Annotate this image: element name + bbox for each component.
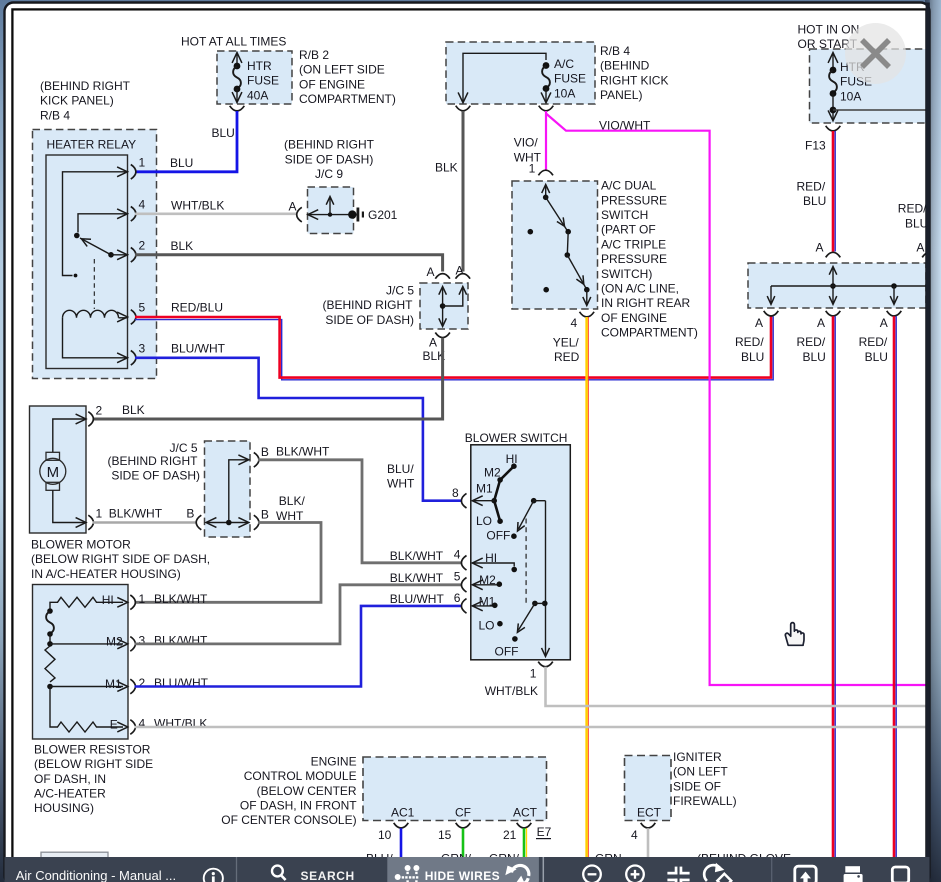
svg-text:WHT/BLK: WHT/BLK [485,684,538,698]
wire BLK A/C fuse box to J/C 5 pin A [462,111,465,272]
blower switch pin 5 [461,578,466,593]
resistor pin 2 [130,679,135,694]
svg-text:BLU/WHT: BLU/WHT [390,592,445,606]
J/C 5 right pin B bottom [254,515,259,530]
blower switch pin 4 [461,556,466,571]
svg-text:OF CENTER CONSOLE): OF CENTER CONSOLE) [221,813,356,827]
blower resistor box [33,585,129,740]
wire BLK/WHT motor pin1 to J/C 5 left [93,521,197,524]
J/C 5 left pin B [196,515,201,530]
junction connector J/C 9 [308,187,354,234]
svg-text:BLOWER RESISTOR: BLOWER RESISTOR [34,742,151,756]
svg-text:A: A [880,316,888,330]
junction box bottom pins A [764,311,779,316]
svg-text:(BEHIND RIGHT: (BEHIND RIGHT [323,298,414,312]
resistor M2 tap [50,643,123,645]
resistor vertical element [45,646,55,682]
svg-text:WHT/BLK: WHT/BLK [154,717,207,731]
svg-text:IN A/C-HEATER HOUSING): IN A/C-HEATER HOUSING) [31,567,181,581]
svg-text:2: 2 [139,239,146,253]
heater relay pin 1 [131,165,136,180]
pressure switch contacts [545,186,547,197]
wire RED/BLU junction box right to bottom [895,316,897,857]
svg-text:RED/: RED/ [797,335,826,349]
R/B 4 internal feed [463,53,546,101]
fuse box R/B 4 [446,42,595,104]
ECM pin 10 (AC1) [394,823,409,828]
heater relay outer box [33,130,157,379]
svg-text:1: 1 [529,161,536,175]
svg-text:A/C: A/C [554,57,574,71]
svg-text:(ON A/C LINE,: (ON A/C LINE, [601,282,679,296]
wire YEL/RED pressure switch to bottom [587,317,589,857]
heater relay pin 4 [131,207,136,222]
svg-text:4: 4 [571,316,578,330]
wire GRN/YEL ECM ACT [526,828,528,857]
svg-text:2: 2 [139,676,146,690]
motor M symbol [53,419,86,452]
svg-text:BLU: BLU [905,216,928,230]
fuse box top right [810,49,930,123]
svg-text:6: 6 [454,591,461,605]
J/C 5 internal bus [206,522,249,524]
fuse HTR FUSE 40A [236,54,238,66]
wire VIO/WHT A/C fuse to pressure switch pin 1 [545,111,547,170]
partially hidden tab box bottom left [41,852,108,860]
svg-text:CF: CF [455,806,471,820]
svg-text:CONTROL MODULE: CONTROL MODULE [244,769,357,783]
blower motor pin 2 [88,412,93,427]
svg-text:10A: 10A [840,89,861,103]
wire RED/BLU relay pin 5 to junction box pin A [135,316,773,379]
blower switch pin 6 [461,599,466,614]
svg-text:(BELOW RIGHT SIDE: (BELOW RIGHT SIDE [34,757,153,771]
svg-text:8: 8 [452,486,459,500]
svg-text:RED/: RED/ [859,335,888,349]
svg-text:HEATER RELAY: HEATER RELAY [47,138,137,152]
svg-text:WHT: WHT [387,477,415,491]
svg-text:5: 5 [454,570,461,584]
wire RED/BLU junction box middle to bottom [834,316,836,857]
svg-text:AC1: AC1 [391,806,415,820]
svg-text:E7: E7 [537,825,552,839]
svg-text:(BELOW RIGHT SIDE OF DASH,: (BELOW RIGHT SIDE OF DASH, [31,552,210,566]
svg-text:SWITCH): SWITCH) [601,267,652,281]
svg-text:BLU/WHT: BLU/WHT [171,342,226,356]
heater relay inner case [46,155,128,369]
heater relay actuation link (dashed) [93,259,95,309]
svg-text:A: A [916,240,924,254]
blower switch upper wiper pivot [531,498,537,504]
svg-text:B: B [261,507,269,521]
svg-text:40A: 40A [247,88,268,102]
rotate icon [512,865,529,875]
svg-text:1: 1 [139,592,146,606]
wire BLU/WHT relay pin 3 to blower switch pin 8 [135,358,462,501]
svg-text:VIO/WHT: VIO/WHT [599,118,651,132]
svg-text:A: A [817,316,825,330]
svg-text:5: 5 [139,301,146,315]
resistor M1 tap [50,686,123,688]
svg-text:J/C 9: J/C 9 [315,167,343,181]
svg-text:IN RIGHT REAR: IN RIGHT REAR [601,296,690,310]
pin under HTR fuse [230,106,245,111]
svg-text:SEARCH: SEARCH [301,869,355,882]
J/C 5 internal links [442,288,444,325]
search icon [272,866,283,877]
svg-text:RIGHT KICK: RIGHT KICK [600,73,668,87]
junction connector J/C 5 (left) [205,441,251,537]
fuse box R/B 2 [217,51,292,104]
wire GRN ECM CF [462,828,465,857]
svg-text:BLU: BLU [741,350,764,364]
svg-text:FIREWALL): FIREWALL) [673,794,737,808]
ground G201 [348,210,356,218]
svg-text:J/C 5: J/C 5 [169,441,197,455]
svg-text:SIDE OF: SIDE OF [673,779,721,793]
svg-text:1: 1 [530,666,537,680]
svg-text:4: 4 [454,548,461,562]
svg-text:LO: LO [479,619,495,633]
zoom in icon [626,866,644,882]
svg-text:HOUSING): HOUSING) [34,801,94,815]
svg-text:BLK/WHT: BLK/WHT [154,592,208,606]
resistor element E [50,687,58,728]
svg-text:10A: 10A [554,86,575,100]
svg-text:VIO/: VIO/ [514,136,539,150]
svg-text:2: 2 [96,404,103,418]
blower switch lower wiper pivot [532,601,538,607]
svg-text:A: A [816,240,824,254]
J/C 9 internal bus [308,214,352,216]
wire WHT/BLK relay pin 4 to J/C 9 [135,213,297,216]
print icon [845,866,860,872]
svg-text:SIDE OF DASH): SIDE OF DASH) [285,152,374,166]
blower motor pin 1 [88,515,93,530]
svg-text:(PART OF: (PART OF [601,223,656,237]
svg-text:A: A [429,335,437,349]
junction box (right, dashed) [748,263,926,308]
svg-text:BLOWER MOTOR: BLOWER MOTOR [31,538,131,552]
svg-text:4: 4 [631,828,638,842]
svg-text:IGNITER: IGNITER [673,750,722,764]
svg-text:PRESSURE: PRESSURE [601,252,667,266]
svg-text:HTR: HTR [247,59,272,73]
svg-text:ENGINE: ENGINE [311,754,357,768]
svg-text:A: A [755,316,763,330]
pin F13 [826,126,841,131]
svg-text:OFF: OFF [486,528,510,542]
info icon [204,869,223,882]
svg-text:BLU/: BLU/ [387,462,414,476]
blower switch box [471,445,571,660]
svg-text:BLK: BLK [171,239,194,253]
heater relay coil [63,310,119,318]
svg-text:M2: M2 [106,634,123,648]
svg-text:Air Conditioning - Manual ...: Air Conditioning - Manual ... [16,868,176,882]
blower motor box [30,406,87,533]
wire BLK J/C 5 to blower motor pin 2 [93,338,443,419]
svg-text:HI: HI [102,593,114,607]
svg-text:SWITCH: SWITCH [601,208,648,222]
svg-text:A/C TRIPLE: A/C TRIPLE [601,237,666,251]
svg-text:15: 15 [438,828,452,842]
svg-text:HIDE WIRES: HIDE WIRES [425,869,500,882]
svg-text:BLK/WHT: BLK/WHT [390,549,444,563]
svg-text:M1: M1 [105,677,122,691]
resistor pin 4 [130,720,135,735]
wire WHT/BLK blower switch pin 1 to right edge [546,667,926,706]
svg-text:(ON LEFT: (ON LEFT [673,765,728,779]
wire BLU/WHT resistor M1 to blower switch pin 6 [135,606,462,687]
svg-text:M: M [47,464,60,481]
svg-text:BLU: BLU [803,350,826,364]
svg-text:BLK/WHT: BLK/WHT [109,506,163,520]
fuse HTR FUSE 10A (F13) [832,54,834,70]
igniter pin 4 [641,823,656,828]
svg-text:4: 4 [139,717,146,731]
close button [845,23,906,84]
svg-text:KICK PANEL): KICK PANEL) [40,94,114,108]
svg-text:F13: F13 [805,138,826,152]
svg-text:HOT IN ON: HOT IN ON [798,22,860,36]
heater relay contact from pin 4 [78,214,128,233]
wire BLU fuse to heater relay pin 1 [136,111,237,172]
svg-text:OF DASH, IN FRONT: OF DASH, IN FRONT [240,799,357,813]
wire RED/BLU F13 to junction box [834,131,836,252]
svg-text:(BEHIND RIGHT: (BEHIND RIGHT [284,138,375,152]
svg-text:RED: RED [554,350,580,364]
svg-text:4: 4 [139,198,146,212]
svg-text:3: 3 [139,342,146,356]
wire WHT/BLK resistor E to right edge [135,726,926,729]
svg-text:J/C 5: J/C 5 [386,284,414,298]
svg-text:10: 10 [378,828,392,842]
svg-text:FUSE: FUSE [247,74,279,88]
svg-text:BLK/WHT: BLK/WHT [390,571,444,585]
J/C 5 right pin B top [254,453,259,468]
svg-text:LO: LO [476,514,492,528]
svg-text:1: 1 [139,156,146,170]
svg-text:RED/: RED/ [735,335,764,349]
svg-text:OF DASH, IN: OF DASH, IN [34,772,106,786]
heater relay contact from pin 1 [63,172,128,276]
svg-text:SIDE OF DASH): SIDE OF DASH) [325,313,414,327]
blower switch link (dashed) [525,519,527,605]
igniter box [625,756,672,821]
wires icon [395,865,420,882]
svg-text:G201: G201 [368,208,398,222]
svg-text:A: A [289,200,297,214]
svg-text:M2: M2 [484,466,501,480]
svg-text:BLU: BLU [212,126,235,140]
svg-text:BLU: BLU [803,194,826,208]
wire BLU ECM AC1 [400,828,403,857]
svg-text:COMPARTMENT): COMPARTMENT) [601,326,698,340]
svg-text:B: B [261,445,269,459]
svg-text:ACT: ACT [513,806,538,820]
svg-text:WHT: WHT [276,509,304,523]
svg-text:(BEHIND: (BEHIND [600,59,650,73]
svg-text:(BEHIND RIGHT: (BEHIND RIGHT [40,79,131,93]
svg-text:WHT/BLK: WHT/BLK [171,198,224,212]
svg-text:21: 21 [503,828,517,842]
svg-text:R/B 4: R/B 4 [40,108,70,122]
svg-text:YEL/: YEL/ [553,335,580,349]
svg-text:BLU: BLU [170,156,193,170]
svg-text:(ON LEFT SIDE: (ON LEFT SIDE [299,63,385,77]
svg-text:M1: M1 [476,481,493,495]
heater relay coil return to pin 3 [63,318,128,358]
svg-text:OFF: OFF [495,645,519,659]
svg-text:BLU: BLU [865,350,888,364]
svg-text:B: B [186,506,194,520]
svg-text:BLK: BLK [122,403,145,417]
svg-text:RED/BLU: RED/BLU [171,301,223,315]
svg-text:BLK: BLK [435,161,458,175]
heater relay pin 3 [131,351,136,366]
svg-text:PANEL): PANEL) [600,88,642,102]
svg-text:R/B 4: R/B 4 [600,44,630,58]
svg-text:BLK/: BLK/ [279,494,306,508]
resistor pin 1 [130,595,135,610]
resistor pin 3 [130,637,135,652]
junction box internal bus [832,268,834,303]
mobile icon [892,867,908,882]
svg-text:A/C DUAL: A/C DUAL [601,179,657,193]
window right border [926,3,930,882]
mouse cursor (hand) [785,623,804,646]
svg-text:RED/: RED/ [898,201,927,215]
wire BLK relay pin 2 to J/C 5 pin A [135,255,443,272]
heater relay pin 2 [131,248,136,263]
engine control module box [363,757,547,821]
svg-text:SIDE OF DASH): SIDE OF DASH) [111,469,200,483]
svg-text:BLK/WHT: BLK/WHT [276,445,330,459]
svg-text:BLU/WHT: BLU/WHT [154,676,209,690]
blower switch pin 8 [461,493,466,508]
pin 4 of pressure switch [580,312,595,317]
svg-text:HOT AT ALL TIMES: HOT AT ALL TIMES [181,35,286,49]
wire BLK/WHT resistor M2 to blower switch pin 5 [135,585,462,644]
svg-text:BLOWER SWITCH: BLOWER SWITCH [465,431,568,445]
svg-text:HI: HI [506,452,518,466]
svg-text:A/C-HEATER: A/C-HEATER [34,787,106,801]
svg-text:PRESSURE: PRESSURE [601,193,667,207]
resistor thermal fuse [50,602,58,609]
wire BLK/WHT J/C 5 to blower switch pin 4 [258,460,462,563]
toolbar [5,857,930,882]
svg-text:R/B 2: R/B 2 [299,48,329,62]
svg-text:RED/: RED/ [797,179,826,193]
svg-text:(BELOW CENTER: (BELOW CENTER [257,784,357,798]
wire GRY igniter to bottom [647,828,650,857]
resistor element HI [58,597,124,607]
heater relay movable contact arm [80,238,111,255]
svg-text:E: E [110,717,118,731]
fit to screen icon [667,867,689,882]
ECM pin 21 (ACT) [517,823,532,828]
J/C 5 pin A bottom [435,333,450,338]
fuse A/C FUSE 10A [543,62,550,69]
svg-text:COMPARTMENT): COMPARTMENT) [299,92,396,106]
svg-text:FUSE: FUSE [554,72,586,86]
svg-text:(BEHIND RIGHT: (BEHIND RIGHT [108,454,199,468]
blower switch pin 1 [538,662,553,667]
svg-text:ECT: ECT [637,806,662,820]
junction connector J/C 5 (right) [420,283,468,329]
svg-text:A: A [427,265,435,279]
svg-text:1: 1 [96,506,103,520]
toolbar dividers [236,857,238,882]
rotate page icon [704,865,720,881]
zoom out icon [583,866,601,882]
svg-text:OF ENGINE: OF ENGINE [601,311,667,325]
pin under A/C fuse [539,106,554,111]
toolbar highlighted section [387,857,539,882]
wire VIO/WHT branch to right side [546,114,926,686]
svg-text:OF ENGINE: OF ENGINE [299,77,365,91]
ECM pin 15 (CF) [456,823,471,828]
pin under R/B 4 left [456,106,471,111]
share icon [795,866,816,882]
heater relay pin 5 [131,310,136,325]
blower switch bus [545,501,547,655]
wire BLK/WHT J/C 5 to blower resistor pin 1 [135,523,322,603]
